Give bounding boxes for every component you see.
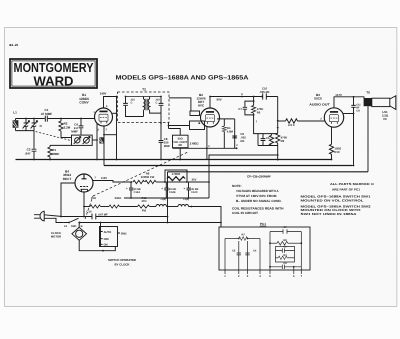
svg-text:L1: L1 <box>13 111 17 115</box>
wire vol bottom to bus <box>179 148 181 160</box>
resistor R1 <box>49 145 51 147</box>
resistor R9 2200 <box>133 180 145 183</box>
node grid box <box>190 111 200 116</box>
svg-text:35V: 35V <box>192 177 197 181</box>
svg-text:C12B: C12B <box>169 191 176 194</box>
dashed gang link <box>36 132 70 141</box>
resistor R2 <box>60 119 62 122</box>
capacitor C2 <box>32 131 37 160</box>
pin 1 <box>224 239 226 275</box>
svg-text:2200Ω FW: 2200Ω FW <box>141 175 155 179</box>
svg-text:.047: .047 <box>25 151 31 155</box>
svg-text:R10: R10 <box>334 150 340 154</box>
capacitor C8 <box>159 141 164 160</box>
wire filter ground rail <box>124 182 209 198</box>
AC plug <box>40 211 44 221</box>
wire screen vertical <box>116 97 118 160</box>
svg-text:COIL IN CIRCUIT: COIL IN CIRCUIT <box>232 211 258 215</box>
svg-text:C: C <box>131 101 133 104</box>
svg-text:VOLTAGES MEASURED WITH A: VOLTAGES MEASURED WITH A <box>236 189 279 193</box>
svg-text:4700Ω: 4700Ω <box>172 172 181 176</box>
wire pin2 row <box>206 127 208 149</box>
capacitor C8i <box>270 265 301 269</box>
wire plate up <box>209 97 211 109</box>
resistor 500 ohm <box>109 205 120 208</box>
svg-text:2 MEG: 2 MEG <box>190 142 200 146</box>
heater B1 <box>178 205 189 207</box>
svg-text:SW1: SW1 <box>71 225 77 228</box>
svg-text:C12A: C12A <box>134 191 141 194</box>
svg-text:T2: T2 <box>142 87 146 91</box>
svg-text:4.8M: 4.8M <box>227 129 234 133</box>
resistor R10i <box>276 257 279 259</box>
svg-text:R7: R7 <box>242 233 246 236</box>
oscillator coil T1 <box>72 135 93 145</box>
svg-text:SWITCH OPERATED: SWITCH OPERATED <box>108 258 136 262</box>
wire line cord <box>44 215 63 223</box>
tube B2 12AV6 <box>201 108 220 127</box>
pin 6 <box>293 267 295 274</box>
capacitor C7 <box>245 101 254 115</box>
coil T2 primary <box>144 97 145 117</box>
svg-text:MOTOR: MOTOR <box>51 234 61 238</box>
svg-text:OFF: OFF <box>104 238 110 241</box>
capacitor C12A <box>129 182 133 198</box>
capacitor C3 <box>123 97 143 117</box>
wire pins right <box>112 112 116 114</box>
capacitor C13 <box>92 214 96 220</box>
capacitor C9 <box>232 119 237 148</box>
capacitor C4 <box>79 119 84 136</box>
svg-text:R8: R8 <box>283 239 287 242</box>
wire R1 top to osc box <box>50 144 72 146</box>
svg-text:MODELS GPS–1688A AND GPS–1865A: MODELS GPS–1688A AND GPS–1865A <box>116 75 250 82</box>
resistor R10 4700 boxed <box>165 170 187 182</box>
resistor R9 470K <box>276 133 280 143</box>
resistor R8 <box>270 242 277 244</box>
wire transformer secondary return <box>367 106 369 172</box>
wire grid leak vertical <box>277 97 279 134</box>
capacitor CA <box>237 253 241 255</box>
capacitor C5 <box>258 134 278 146</box>
svg-text:MMF: MMF <box>71 129 78 133</box>
svg-text:CONV: CONV <box>79 101 89 105</box>
wire screen right <box>344 113 354 115</box>
svg-text:ALL PARTS MARKED ⊙: ALL PARTS MARKED ⊙ <box>330 182 375 186</box>
coil T2 secondary <box>148 97 161 114</box>
svg-text:SW2: SW2 <box>121 233 127 236</box>
nested box <box>276 247 295 263</box>
svg-text:.047 MF: .047 MF <box>98 213 108 216</box>
svg-text:140V: 140V <box>100 91 107 95</box>
capacitor C <box>159 97 164 114</box>
wire cathode out <box>93 181 131 183</box>
svg-text:ON: ON <box>104 243 108 246</box>
wire bus B <box>104 165 352 167</box>
svg-text:RECT: RECT <box>63 177 72 181</box>
tube B4 35W4 <box>75 174 93 192</box>
svg-text:117V: 117V <box>335 93 342 97</box>
capacitor C9 <box>276 248 295 252</box>
wire cathode pins down <box>97 123 99 159</box>
svg-text:C5: C5 <box>232 250 236 253</box>
svg-text:C5: C5 <box>266 137 270 140</box>
svg-text:MMF: MMF <box>164 144 171 148</box>
svg-text:R6: R6 <box>257 111 261 115</box>
svg-text:B: B <box>81 225 83 228</box>
svg-text:500Ω: 500Ω <box>115 197 122 200</box>
resistor R11 cathode <box>331 127 333 145</box>
dashed link SW1 to volume <box>93 152 188 196</box>
svg-text:47 MMF: 47 MMF <box>41 112 52 116</box>
svg-text:SW1 NOT USED IN 1865A: SW1 NOT USED IN 1865A <box>301 212 358 216</box>
svg-text:90V: 90V <box>217 97 222 101</box>
wire plate up <box>333 97 335 108</box>
svg-text:BY CLOCK: BY CLOCK <box>114 262 130 266</box>
capacitor CB <box>245 253 249 255</box>
capacitor C1 <box>45 116 47 122</box>
wire top bus right section <box>210 96 278 98</box>
svg-text:T5: T5 <box>366 91 370 95</box>
wire right vertical joining buses <box>167 172 169 223</box>
pin 5 <box>269 232 271 275</box>
svg-text:2.2M: 2.2M <box>64 125 71 129</box>
svg-text:C7: C7 <box>283 226 287 229</box>
resistor R4 <box>217 119 235 126</box>
svg-text:47Ω: 47Ω <box>141 200 147 203</box>
svg-text:B– UNDER NO SIGNAL COND.: B– UNDER NO SIGNAL COND. <box>236 199 282 203</box>
svg-text:+: + <box>183 186 185 190</box>
svg-text:AVC: AVC <box>198 103 205 107</box>
tuning capacitor C1B <box>32 119 37 131</box>
wire to diode box <box>169 123 190 129</box>
svg-text:+: + <box>161 186 163 190</box>
svg-text:ARE PART OF PC1: ARE PART OF PC1 <box>332 187 360 191</box>
wire osc box to B1 cathode <box>92 139 97 141</box>
pin 7 <box>300 232 302 275</box>
tube B3 50C5 <box>324 108 343 127</box>
svg-text:C12C: C12C <box>191 191 198 194</box>
logo box Montgomery Ward <box>10 59 97 89</box>
svg-text:AUDIO OUT: AUDIO OUT <box>309 102 330 106</box>
transformer T2 dashed box <box>118 92 170 123</box>
svg-text:MOUNTED ON VOL CONTROL: MOUNTED ON VOL CONTROL <box>301 199 364 203</box>
tube B1 12BE6 <box>95 108 113 126</box>
svg-text:CO: CO <box>356 110 360 113</box>
svg-text:680K: 680K <box>52 152 60 156</box>
svg-text:MONTGOMERY: MONTGOMERY <box>14 60 94 75</box>
resistor R7 couplate <box>225 238 239 240</box>
wire antenna top bus <box>16 118 95 120</box>
svg-text:C4: C4 <box>253 250 257 253</box>
svg-text:FW: FW <box>142 210 147 213</box>
wire B+ feed <box>209 155 278 182</box>
pin 2 <box>238 241 240 274</box>
tuning capacitor C1A <box>24 119 29 131</box>
svg-text:AUTO: AUTO <box>104 231 112 234</box>
svg-text:R8: R8 <box>178 144 182 147</box>
capacitor C12B <box>164 182 168 198</box>
svg-text:COIL RESISTANCES READ WITH: COIL RESISTANCES READ WITH <box>232 206 284 210</box>
svg-text:⊕2–25: ⊕2–25 <box>9 43 19 47</box>
capacitor C12C <box>187 182 191 198</box>
wire heater chain <box>84 206 90 208</box>
svg-text:WARD: WARD <box>34 74 74 89</box>
wire bus A <box>16 159 332 161</box>
wire secondary bottom out of box <box>160 113 162 140</box>
resistor R7 <box>271 134 273 136</box>
volume control R8 <box>173 135 189 148</box>
node diode box <box>190 121 205 130</box>
speaker LS1 <box>372 98 390 106</box>
capacitor C10 <box>263 93 267 99</box>
svg-text:–3(4): –3(4) <box>160 198 166 201</box>
pin 4 <box>259 239 261 275</box>
right network rails <box>270 231 301 233</box>
svg-text:PC1: PC1 <box>260 222 266 226</box>
switch SW1 <box>63 222 221 224</box>
svg-text:50C5: 50C5 <box>314 97 322 101</box>
svg-text:NOTE:: NOTE: <box>232 184 242 188</box>
svg-text:C: C <box>156 101 158 104</box>
svg-text:120 K: 120 K <box>288 124 295 127</box>
svg-text:.005 MF: .005 MF <box>259 90 270 94</box>
coil L2 osc tickler <box>99 137 103 143</box>
svg-text:+: + <box>126 186 128 190</box>
svg-text:A1: A1 <box>64 225 68 228</box>
svg-text:C7: C7 <box>238 107 242 111</box>
wire vol top <box>169 129 181 136</box>
wire pin to screen vertical <box>104 134 117 136</box>
svg-text:110V: 110V <box>101 176 108 180</box>
resistor 33 ohm <box>90 205 101 208</box>
svg-text:CP+CB=250MMF: CP+CB=250MMF <box>247 174 271 178</box>
wire AC top with C13 <box>61 216 168 218</box>
resistor R5 grid stopper <box>278 120 286 122</box>
wire detector row <box>173 147 237 149</box>
svg-text:VTVM AT 180V 60% FROM: VTVM AT 180V 60% FROM <box>236 194 277 198</box>
switch SW2 auto/off/on <box>100 223 102 247</box>
wire antenna bottom plate line <box>16 130 35 132</box>
pin 3 <box>247 241 249 274</box>
wire T2 secondary to grid <box>169 98 191 111</box>
wire plate to top bus <box>104 97 117 109</box>
svg-text:R9: R9 <box>281 139 285 143</box>
resistor R12 47 ohm FW <box>138 205 150 208</box>
wire cathode pin down <box>83 192 85 217</box>
svg-text:+3(4): +3(4) <box>183 198 189 201</box>
resistor R6 <box>253 97 255 106</box>
wire B3 plate to speaker <box>334 96 364 98</box>
wire bus C <box>168 171 369 173</box>
capacitor C7 couplate <box>283 229 287 234</box>
capacitor C11 <box>351 97 355 166</box>
heater B2 <box>156 205 167 207</box>
svg-text:MF: MF <box>240 139 244 143</box>
wire <box>156 181 165 183</box>
wire AC to plate <box>61 183 75 217</box>
